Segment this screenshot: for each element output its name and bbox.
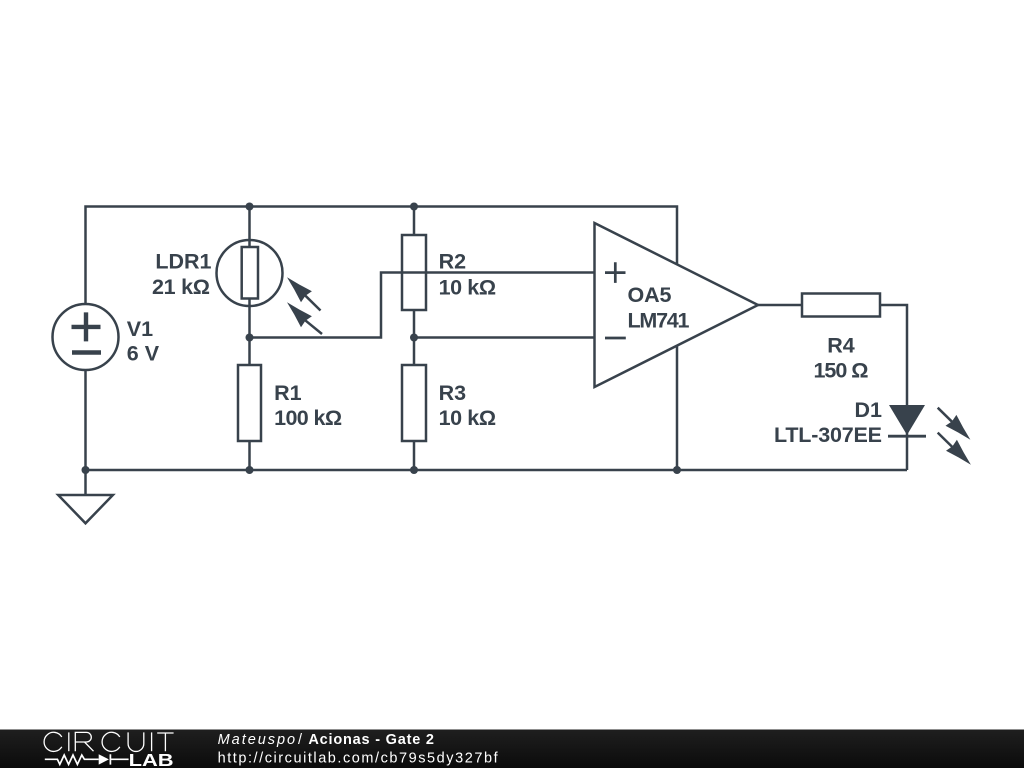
wire top rail from V1 to op-amp power drop: [86, 207, 678, 471]
svg-text:6 V: 6 V: [127, 342, 160, 366]
D1 light arrow lower: [938, 433, 971, 465]
junction LDR1 bottom / R1 top: [246, 334, 254, 342]
wire node B: LDR1 bottom to op-amp non-inverting input: [250, 273, 595, 338]
junction R2 top rail: [410, 203, 418, 211]
label R4 value: [814, 334, 869, 383]
wire op-amp output to R4 to LED branch: [758, 305, 907, 470]
junction op-amp power bottom rail: [673, 466, 681, 474]
svg-text:D1: D1: [855, 398, 883, 422]
voltage source V1: [53, 304, 119, 370]
svg-text:OA5: OA5: [628, 283, 672, 307]
junction LDR1 top rail: [246, 203, 254, 211]
label OA5 value: [628, 283, 690, 332]
D1 light arrow upper: [938, 408, 971, 440]
svg-text:LAB: LAB: [129, 750, 174, 768]
resistor R2 body: [402, 235, 426, 310]
svg-text:150 Ω: 150 Ω: [814, 358, 869, 382]
junction R3 bottom rail: [410, 466, 418, 474]
svg-text:R4: R4: [827, 334, 855, 358]
LDR1 light arrow lower: [287, 302, 322, 334]
label V1 value: [127, 317, 160, 366]
svg-text:R3: R3: [439, 381, 467, 405]
junction R1 bottom rail: [246, 466, 254, 474]
svg-text:V1: V1: [127, 317, 153, 341]
label D1 value: [774, 398, 882, 447]
CircuitLab logo schematic squiggle: [45, 754, 129, 764]
label R2 value: [439, 249, 497, 299]
wire LDR1/R1 branch: [248, 207, 251, 471]
label R3 value: [439, 381, 497, 430]
svg-text:100 kΩ: 100 kΩ: [274, 406, 342, 430]
svg-text:R2: R2: [439, 249, 467, 273]
LDR1 light arrow upper: [287, 277, 321, 310]
resistor R4 body: [802, 294, 880, 317]
LED D1: [888, 405, 926, 436]
svg-text:10 kΩ: 10 kΩ: [439, 275, 497, 299]
CircuitLab logo wordmark CIRCUIT (drawn letters): [44, 732, 174, 751]
svg-text:LDR1: LDR1: [155, 250, 211, 274]
resistor R3 body: [402, 365, 426, 441]
wire bottom rail: [86, 469, 908, 472]
svg-text:10 kΩ: 10 kΩ: [439, 406, 497, 430]
svg-text:LTL-307EE: LTL-307EE: [774, 423, 882, 447]
svg-text:Acionas - Gate 2: Acionas - Gate 2: [308, 732, 434, 748]
wire R2/R3 branch: [413, 207, 416, 471]
photoresistor LDR1: [217, 240, 283, 306]
junction V1 bottom rail: [82, 466, 90, 474]
label R1 value: [274, 381, 342, 430]
label LDR1 value: [152, 250, 212, 300]
resistor R1 body: [238, 365, 261, 441]
svg-text:21 kΩ: 21 kΩ: [152, 275, 210, 299]
junction R2 bottom / R3 top: [410, 334, 418, 342]
op-amp OA5: [595, 223, 759, 387]
ground symbol: [58, 470, 113, 523]
svg-text:R1: R1: [274, 381, 302, 405]
wire node C: R2/R3 junction to op-amp inverting input: [414, 336, 595, 339]
svg-text:LM741: LM741: [628, 308, 690, 332]
svg-text:http://circuitlab.com/cb79s5dy: http://circuitlab.com/cb79s5dy327bf: [218, 751, 499, 767]
